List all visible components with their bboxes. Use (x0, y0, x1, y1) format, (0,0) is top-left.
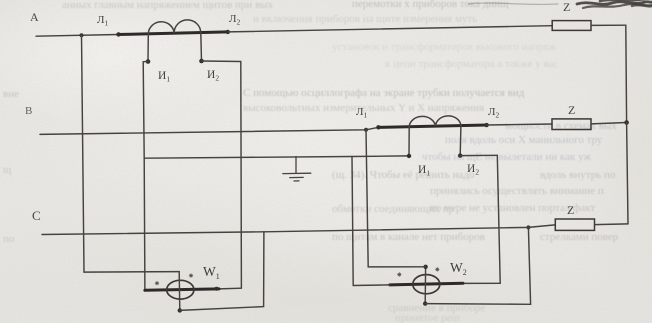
resistor Z3 (555, 219, 594, 230)
wire T1 secondary drop И2 (200, 33, 203, 61)
terminal dot И1 (146, 59, 151, 64)
op W2 meter circle (413, 275, 440, 294)
wire phase B left (40, 127, 378, 134)
wire W2 current coil left (353, 284, 390, 287)
svg-text:принятое реш: принятое реш (395, 312, 461, 323)
svg-text:С помощью осциллографа на экра: С помощью осциллографа на экране трубки … (243, 87, 525, 99)
polarity mark W1 left (155, 281, 159, 285)
svg-text:поля вдоль оси X манильного тр: поля вдоль оси X манильного тру (445, 134, 603, 146)
wire phase B right (487, 124, 552, 125)
wire star vertical lower (627, 123, 628, 224)
wire Z1 to star point (591, 24, 626, 26)
top-right scan scribble artifact (468, 0, 652, 8)
wire phase A left (36, 35, 118, 37)
node star junction dot (624, 120, 629, 125)
resistor Z2 (552, 119, 591, 130)
wire T2 drop И2 (459, 126, 462, 156)
terminal dot T2 Л2 (484, 123, 488, 127)
wire И2 to right side (202, 60, 241, 63)
node W2 bottom dot (423, 301, 427, 305)
wire phase B voltage to W2 (366, 130, 426, 267)
wire T1 right vertical down (240, 62, 243, 289)
svg-text:вне: вне (3, 88, 19, 100)
node W2-C junction dot (526, 225, 530, 229)
wire T2 И2 to right (460, 154, 497, 156)
wire И1 to left side (143, 61, 148, 63)
polarity mark W1 top (189, 274, 193, 278)
op W1 meter circle (167, 280, 194, 299)
node A junction dot (80, 33, 84, 37)
svg-text:A: A (30, 10, 39, 24)
svg-text:по щитам в канале нет приборов: по щитам в канале нет приборов (332, 231, 485, 243)
terminal dot T2 И2 (458, 153, 462, 157)
resistor Z1 (552, 21, 591, 31)
wire phase A right (228, 26, 552, 32)
wire phase A voltage drop to W1 (82, 35, 180, 272)
transformer T1 winding arcs (148, 20, 200, 34)
transformer T1 primary winding Л1-Л2 (thick) (118, 32, 228, 35)
wire T2 drop И1 (408, 127, 410, 156)
svg-text:щ: щ (3, 164, 12, 176)
node W1 current right dot (215, 287, 219, 291)
wire star vertical upper (625, 25, 628, 122)
wire to W2 current coil right end (463, 282, 500, 284)
svg-text:B: B (25, 105, 32, 117)
wire Z2 to star point (591, 123, 627, 124)
wire to W1 current coil right end (219, 287, 241, 290)
transformer T2 winding arcs (409, 116, 461, 127)
wire W1 voltage vertical (178, 272, 181, 311)
svg-text:принялись осуществлять внимани: принялись осуществлять внимание п (430, 185, 604, 197)
svg-text:стрелками повер: стрелками повер (540, 231, 619, 243)
svg-text:Z: Z (568, 103, 575, 117)
wire Z3 to star point (595, 223, 629, 226)
polarity mark W2 top (436, 268, 440, 272)
wire W2 bottom to phase C (425, 227, 530, 304)
svg-text:Z: Z (563, 0, 570, 14)
node W2 top dot (423, 265, 427, 269)
svg-text:чтобы на щЕ не вылетали ни как: чтобы на щЕ не вылетали ни как уж (422, 151, 591, 163)
wire W2 left vertical up to ground bus (352, 157, 353, 286)
wire T1 secondary drop И1 (147, 34, 149, 62)
ground (283, 157, 311, 181)
svg-text:по: по (3, 233, 15, 245)
terminal dot И2 (199, 59, 204, 64)
wattmeter W1 current coil (thick) (145, 289, 219, 290)
transformer T2 primary winding (thick) (378, 125, 487, 127)
svg-text:к цепи трансформатора а также: к цепи трансформатора а также у вас (385, 58, 558, 70)
wattmeter W2 current coil (thick) (390, 283, 463, 285)
wire phase C (42, 225, 555, 235)
wire T2 right vertical down to W2 (497, 155, 500, 283)
terminal dot Л1 (116, 32, 120, 36)
node W1 bottom dot (178, 308, 182, 312)
wire secondary common (ground bus) (144, 156, 409, 158)
polarity mark W2 left (398, 273, 402, 277)
svg-text:и включения приборов на щите и: и включения приборов на щите измерения м… (253, 13, 477, 25)
svg-text:C: C (32, 208, 41, 223)
terminal dot T2 И1 (407, 154, 411, 158)
terminal dot T2 Л1 (376, 125, 380, 129)
wire W1 bottom to phase C (180, 232, 264, 311)
svg-text:анных главным напряжением щито: анных главным напряжением щитов при вых (62, 0, 274, 11)
svg-text:установок и трансформаторов вы: установок и трансформаторов высокого нап… (332, 41, 557, 53)
svg-text:перемотки х приборов тока днищ: перемотки х приборов тока днищ (352, 0, 509, 10)
node B junction dot (364, 128, 368, 132)
svg-text:(щ. 34). Чтобы её решить надо: (щ. 34). Чтобы её решить надо (332, 169, 475, 181)
wire W2 voltage vertical (424, 267, 426, 304)
terminal dot Л2 (226, 30, 230, 34)
svg-text:Z: Z (567, 203, 574, 217)
wire T1 left vertical down to W1 (143, 62, 145, 291)
svg-text:вдоль внутрь по: вдоль внутрь по (540, 169, 616, 181)
